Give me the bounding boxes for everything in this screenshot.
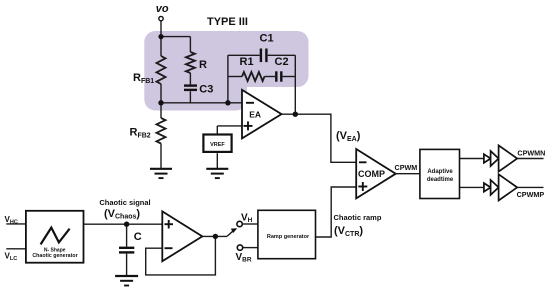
svg-text:Chaotic ramp: Chaotic ramp [334,213,382,222]
svg-text:C1: C1 [260,33,274,45]
svg-text:CPWMP: CPWMP [517,190,545,199]
svg-text:CPWMN: CPWMN [517,149,545,158]
svg-text:R1: R1 [240,56,254,68]
svg-text:Chaotic generator: Chaotic generator [32,253,77,259]
svg-text:CPWM: CPWM [395,163,418,172]
svg-text:deadtime: deadtime [427,177,454,183]
svg-text:vo: vo [156,3,169,15]
svg-text:R: R [199,59,207,71]
svg-text:C: C [134,231,142,243]
svg-text:EA: EA [249,109,261,119]
svg-text:VREF: VREF [210,142,225,148]
svg-text:TYPE III: TYPE III [207,16,248,28]
svg-text:C2: C2 [275,56,289,68]
svg-text:Chaotic signal: Chaotic signal [99,198,150,207]
svg-text:COMP: COMP [358,169,385,179]
svg-text:Ramp generator: Ramp generator [267,234,310,240]
svg-text:Adaptive: Adaptive [427,169,453,175]
svg-text:C3: C3 [199,84,213,96]
